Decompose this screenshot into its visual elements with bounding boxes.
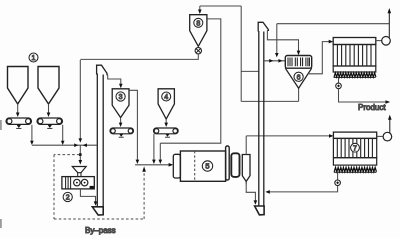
label 6 (294, 72, 303, 81)
hopper 3 (112, 89, 129, 118)
svg-text:By–pass: By–pass (85, 226, 116, 235)
wire discharge vent up (245, 136, 247, 155)
svg-text:2: 2 (66, 195, 70, 202)
label 4 (162, 92, 171, 101)
arrow bypass up into mill feed (142, 166, 146, 171)
rotary valve product (338, 78, 340, 84)
elevator 1 head (97, 65, 107, 75)
separator 6 box (285, 56, 311, 69)
label 3 (116, 92, 125, 101)
wire cyclone dust line (80, 54, 198, 60)
wire mill feed line (135, 164, 169, 166)
stack arrow up (388, 8, 392, 13)
hopper 1a (8, 67, 29, 105)
node bypass tap (79, 153, 82, 156)
label 1 (29, 53, 38, 62)
wire feederB down (62, 125, 64, 142)
feeder 3 (110, 128, 134, 137)
elevator 1 boot (92, 207, 103, 215)
ball mill drive (231, 153, 239, 177)
ball mill 5 inlet cap (173, 154, 180, 178)
separator 6 cone (285, 68, 311, 88)
wire mill discharge to elevator2 (246, 182, 255, 201)
arrow left into junction (83, 143, 87, 147)
label 8 (194, 18, 203, 27)
hopper 1b (38, 67, 59, 105)
svg-text:6: 6 (297, 74, 301, 81)
scan edge marks (0, 120, 2, 228)
wire feederA down (31, 125, 33, 142)
separator 6 vanes (288, 58, 309, 67)
wire feeder4 discharge (153, 134, 155, 160)
bag filter 7 body (333, 138, 376, 157)
wire mill vent to filter7 (246, 135, 329, 137)
wire junction down to press funnel (79, 145, 81, 160)
fan A (376, 40, 382, 42)
by-pass dashed route (54, 155, 144, 219)
wire hopper3 overflow to mill feed (129, 90, 137, 160)
wire collect to elevator (32, 144, 97, 146)
svg-text:8: 8 (196, 20, 200, 27)
feeder 4 (154, 128, 179, 137)
ball mill flange (226, 146, 230, 180)
wire filter7 dust to elevator2 (270, 186, 338, 192)
svg-text:4: 4 (164, 94, 168, 101)
mill discharge box (242, 155, 250, 182)
wire hopper1b to feeder (48, 104, 50, 113)
rotary valve 7 (337, 172, 339, 180)
wire cyclone dust down to junction (79, 60, 81, 139)
wire mill vent duct (200, 5, 241, 7)
bag filter A body (333, 45, 376, 67)
bucket elevator 2 (258, 31, 260, 206)
wire riser to elevator2 (241, 70, 258, 72)
roller press rollers (74, 179, 81, 186)
wire elevator2 discharge to separator (267, 30, 298, 51)
wire separator air out to filter (308, 42, 329, 74)
arrow right into junction (74, 143, 78, 147)
wire press to elevator boot (80, 189, 95, 202)
roller press 2 body (62, 177, 94, 189)
ball mill 5 body (180, 151, 225, 181)
elevator 2 boot (255, 206, 265, 215)
svg-text:7: 7 (353, 145, 357, 152)
wire product line (339, 89, 386, 102)
elevator 2 head (258, 22, 268, 31)
wire recirculation from cyclone outlet (159, 143, 161, 160)
cyclone 8 (190, 15, 207, 47)
bag filter A sawtooth (334, 73, 376, 77)
hopper 4 (158, 89, 174, 119)
svg-text:Product: Product (358, 103, 386, 112)
wire hopper4 to feeder4 (165, 119, 167, 123)
label 2 (63, 192, 72, 201)
svg-text:3: 3 (119, 94, 123, 101)
bag filter 7 hopper (333, 158, 376, 165)
wire cyclone inlet (199, 6, 201, 10)
svg-text:1: 1 (32, 55, 36, 62)
wire air duct down to junction (276, 24, 278, 54)
feeder B (37, 118, 63, 128)
bag filter A hopper (333, 66, 376, 72)
wire top air duct (277, 23, 389, 25)
rotary valve cyclone (197, 46, 199, 47)
bucket elevator 1 (96, 74, 98, 207)
bag filter A top (333, 38, 376, 45)
feeder A (6, 118, 32, 128)
wire vent riser x241 (240, 6, 242, 101)
svg-text:5: 5 (205, 162, 209, 171)
roller press funnel (72, 167, 86, 173)
wire elevator1 discharge to hopper3 (108, 75, 121, 85)
wire elevator2 side feed to separator (264, 60, 285, 62)
bag filter 7 sawtooth (334, 167, 376, 171)
label 5 (202, 161, 212, 171)
wire hopper3 to feeder3 (120, 118, 122, 123)
wire separator reject line (241, 100, 298, 102)
fan 7 (377, 135, 384, 137)
roller press motor block (90, 186, 94, 189)
wire hopper1a to feeder (17, 104, 19, 113)
label 7 (351, 143, 360, 152)
bag filter 7 top (333, 132, 376, 138)
